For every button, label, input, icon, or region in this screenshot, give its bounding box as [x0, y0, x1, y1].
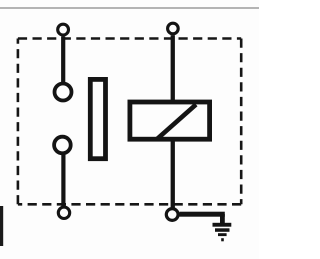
switch contact circle upper: [55, 84, 72, 101]
wire: coil bottom stem: [171, 140, 175, 208]
terminal circle top-left: [58, 24, 69, 35]
switch contact circle lower: [54, 137, 71, 154]
wire: coil top stem: [171, 35, 175, 101]
ground: [213, 214, 232, 241]
armature bar (thin rectangle): [90, 79, 105, 158]
wire: bottom-left stem: [61, 154, 65, 207]
terminal circle bottom-right: [166, 209, 178, 221]
terminal circle bottom-left: [58, 207, 69, 218]
relay coil box: [130, 102, 210, 139]
left edge mark: [0, 206, 3, 246]
relay coil diagonal: [157, 105, 197, 140]
relay enclosure dashed box: [18, 39, 241, 205]
terminal circle top-right: [168, 23, 179, 34]
wire: horizontal to ground: [179, 212, 224, 217]
top edge scan line: [0, 7, 259, 8]
wire: top-left stem: [61, 36, 65, 82]
